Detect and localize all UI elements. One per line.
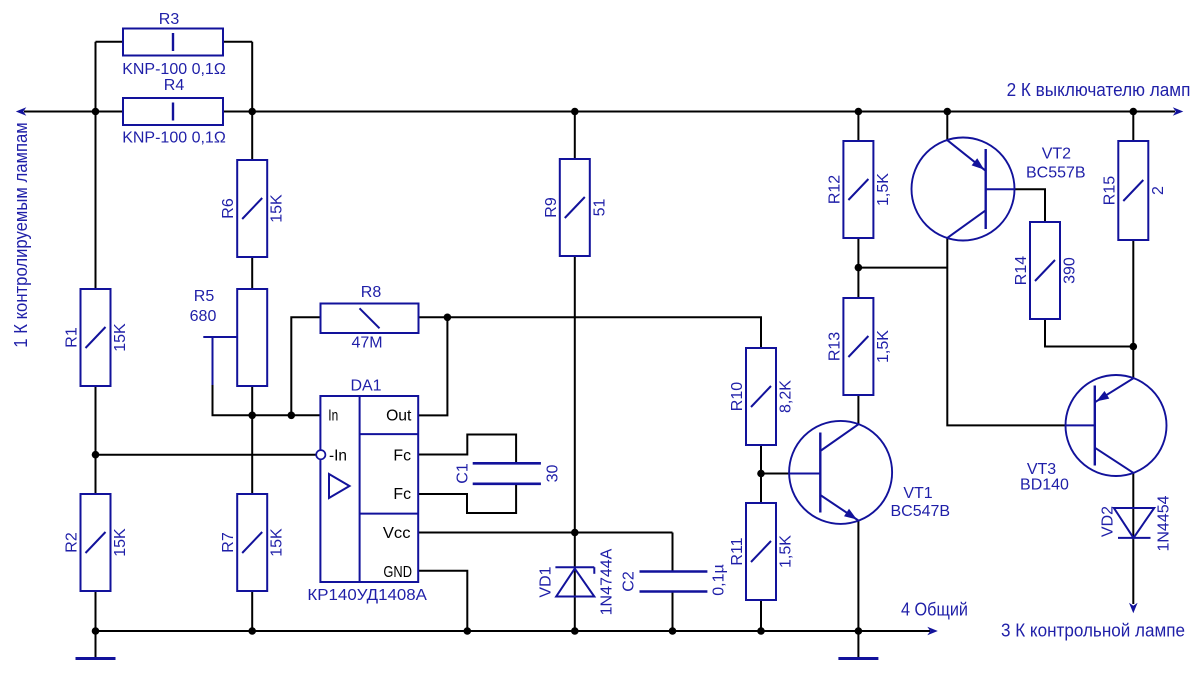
wire: R1 to R2: [95, 386, 97, 494]
svg-text:R13: R13: [826, 332, 843, 361]
resistor R4: [123, 77, 223, 125]
svg-text:DA1: DA1: [350, 378, 381, 395]
junction top rail / R15: [1130, 108, 1138, 116]
wire: R12 to R13: [857, 238, 859, 298]
junction bottom rail / R2: [92, 627, 100, 635]
wire: C2 bottom lead: [672, 592, 674, 632]
svg-text:0,1µ: 0,1µ: [711, 564, 728, 595]
resistor R10: [729, 348, 795, 445]
svg-text:R3: R3: [159, 11, 180, 28]
junction top rail / R6 column: [248, 108, 256, 116]
wire: VT2 emitter lead: [946, 112, 948, 141]
resistor R1: [64, 289, 130, 386]
junction In net / R5-R7: [248, 412, 256, 420]
resistor R8 (47M): [321, 284, 419, 352]
wire: R5 bottom to R7 top: [251, 386, 253, 494]
wire: VT1 base lead: [761, 473, 789, 475]
svg-text:2: 2: [1150, 186, 1167, 195]
junction R10-R11 / VT1 base: [757, 470, 765, 478]
junction bottom rail / R7: [248, 627, 256, 635]
diode VD2 (1N4454): [1100, 495, 1173, 551]
junction top rail / R9: [571, 108, 579, 116]
junction In net / R8: [288, 412, 296, 420]
svg-text:R14: R14: [1013, 256, 1030, 285]
svg-text:C2: C2: [621, 571, 638, 592]
wire: Out net horizontal to R10: [419, 317, 761, 348]
node: bottom rail arrow (4): [927, 627, 938, 636]
resistor R15: [1101, 141, 1167, 240]
resistor R6: [220, 160, 286, 257]
svg-text:GND: GND: [383, 564, 412, 581]
wire: R10 to R11: [760, 445, 762, 503]
capacitor C2 (0,1u): [621, 564, 728, 595]
wire: R15 bottom to VT3 emitter: [1132, 240, 1134, 378]
svg-text:30: 30: [545, 465, 562, 483]
svg-text:R7: R7: [220, 532, 237, 553]
transistor VT3 (BD140): [1020, 375, 1166, 494]
wire: R12/R13 node to VT2 collector line: [858, 267, 947, 269]
svg-text:Out: Out: [386, 407, 412, 424]
svg-text:VD1: VD1: [538, 566, 555, 597]
svg-text:Vcc: Vcc: [383, 525, 411, 542]
svg-text:VT1: VT1: [903, 485, 932, 502]
wire: R9 bottom to Vcc net: [574, 256, 576, 533]
svg-text:VT2: VT2: [1042, 146, 1071, 163]
junction top rail / VT2 emitter: [944, 108, 952, 116]
wire: R7 to bottom rail: [251, 591, 253, 631]
resistor R11: [729, 503, 795, 600]
svg-text:VD2: VD2: [1100, 506, 1117, 537]
wire: bottom rail net 4: [96, 630, 931, 632]
junction bottom rail / VT1 emitter: [855, 627, 863, 635]
wire: R13 to VT1 collector: [857, 395, 859, 424]
svg-text:R2: R2: [64, 532, 81, 553]
svg-text:15K: 15K: [112, 323, 129, 352]
junction bottom rail / C2: [669, 627, 677, 635]
ground (left): [76, 657, 116, 660]
junction top rail / R12: [855, 108, 863, 116]
svg-text:Fc: Fc: [393, 486, 411, 503]
capacitor C1 (30): [455, 463, 562, 484]
wire: R3 left lead: [96, 41, 124, 43]
svg-text:R10: R10: [729, 382, 746, 411]
svg-text:Fc: Fc: [393, 448, 411, 465]
wire: ground stub left: [95, 631, 97, 658]
svg-text:VT3: VT3: [1027, 461, 1056, 478]
resistor R12: [826, 141, 892, 238]
wire: R15 top lead: [1132, 112, 1134, 142]
junction R14 / R15 column: [1130, 343, 1138, 351]
wire: R9 top lead: [574, 112, 576, 160]
svg-text:КР140УД1408А: КР140УД1408А: [307, 587, 427, 604]
svg-text:R9: R9: [543, 197, 560, 218]
junction Vcc net / R9-VD1: [571, 529, 579, 537]
svg-text:R5: R5: [194, 288, 215, 305]
wire: R3 right vertical to R6: [251, 42, 253, 160]
svg-text:390: 390: [1062, 257, 1079, 284]
wire: R2 to bottom rail: [95, 591, 97, 631]
wire: VT1 emitter to bottom rail: [857, 521, 859, 632]
svg-text:R6: R6: [220, 198, 237, 219]
svg-text:1,5K: 1,5K: [875, 330, 892, 363]
svg-text:680: 680: [190, 308, 217, 325]
wire: R14 bottom to R15 column: [1045, 319, 1133, 347]
wire: R5 tap to In net: [213, 385, 321, 415]
svg-text:C1: C1: [455, 463, 472, 484]
svg-text:3 К контрольной лампе: 3 К контрольной лампе: [1001, 621, 1185, 641]
svg-text:4 Общий: 4 Общий: [901, 600, 968, 620]
svg-text:51: 51: [591, 199, 608, 217]
wire: VD1 through wire to ground rail: [574, 533, 576, 632]
svg-text:BC547B: BC547B: [891, 503, 951, 520]
svg-text:BC557B: BC557B: [1026, 165, 1086, 182]
svg-text:In: In: [328, 407, 338, 424]
resistor R9: [543, 159, 609, 256]
junction top rail / R1 column: [92, 108, 100, 116]
svg-text:R15: R15: [1101, 176, 1118, 205]
wire: Fc1 to C1 top plate: [418, 435, 516, 464]
resistor R7: [220, 494, 286, 591]
wire: C2 top lead: [672, 533, 674, 572]
wire: -In net: [96, 454, 317, 456]
junction R1-R2 / -In net: [92, 451, 100, 459]
node: left port arrow (1): [16, 107, 26, 116]
wire: GND pin to bottom rail: [418, 571, 467, 631]
zener diode VD1 (1N4744A): [538, 548, 616, 615]
wire: R8 left lead to In net: [291, 317, 320, 415]
wire: VT3 collector through VD2: [1132, 473, 1134, 604]
wire: ground stub VT1: [857, 631, 859, 658]
svg-text:BD140: BD140: [1020, 477, 1069, 494]
wire: Vcc net horizontal: [418, 532, 672, 534]
wire: R11 to bottom rail: [760, 600, 762, 631]
svg-text:15K: 15K: [269, 528, 286, 557]
op-amp DA1 (KR140UD1408A): [320, 378, 418, 583]
resistor R3: [123, 11, 223, 56]
wire: R3 right lead: [223, 41, 252, 43]
svg-text:R8: R8: [361, 284, 382, 301]
svg-text:15K: 15K: [269, 194, 286, 223]
junction bottom rail / R11: [757, 627, 765, 635]
wire: VT2 collector down and to VT3 base: [947, 238, 1065, 426]
svg-text:KNP-100 0,1Ω: KNP-100 0,1Ω: [122, 61, 226, 78]
svg-text:2 К выключателю ламп: 2 К выключателю ламп: [1007, 80, 1191, 100]
node: right port arrow (2): [1173, 107, 1184, 116]
svg-text:-In: -In: [329, 447, 347, 464]
resistor R2: [64, 494, 130, 591]
transistor VT2 (BC557B): [912, 138, 1086, 241]
svg-text:47M: 47M: [351, 335, 382, 352]
pin -In (inverting, with circle): [316, 450, 325, 459]
resistor R13: [826, 298, 892, 395]
svg-text:8,2K: 8,2K: [778, 380, 795, 413]
resistor R5 (tapped, 680): [190, 288, 268, 386]
transistor VT1 (BC547B): [789, 421, 950, 524]
wire: top rail net 2: [24, 111, 1175, 113]
svg-text:15K: 15K: [112, 528, 129, 557]
junction bottom rail / DA1 GND: [464, 627, 472, 635]
wire: C1 bottom plate to Fc2: [418, 484, 516, 513]
svg-text:R1: R1: [64, 327, 81, 348]
svg-text:1 К контролируемым лампам: 1 К контролируемым лампам: [11, 122, 31, 347]
node: lamp port arrow (3): [1129, 603, 1138, 614]
svg-text:1N4454: 1N4454: [1156, 495, 1173, 551]
svg-text:KNP-100 0,1Ω: KNP-100 0,1Ω: [122, 130, 226, 147]
svg-text:1N4744A: 1N4744A: [599, 548, 616, 615]
resistor R14: [1013, 222, 1079, 319]
svg-text:R4: R4: [164, 77, 185, 94]
svg-text:1,5K: 1,5K: [778, 535, 795, 568]
svg-text:R11: R11: [729, 537, 746, 565]
wire: R3 bypass left vertical: [95, 42, 97, 289]
junction bottom rail / VD1: [571, 627, 579, 635]
svg-text:1,5K: 1,5K: [875, 173, 892, 206]
wire: R6 to R5: [251, 257, 253, 289]
junction R12-R13 node: [855, 264, 863, 272]
wire: Out pin lead: [418, 317, 447, 415]
wire: VT2 base to R14: [1014, 189, 1045, 222]
svg-text:R12: R12: [826, 175, 843, 204]
junction Out net / R8 right: [444, 314, 452, 322]
wire: R12 top lead: [857, 112, 859, 142]
ground (VT1 emitter): [838, 657, 878, 660]
